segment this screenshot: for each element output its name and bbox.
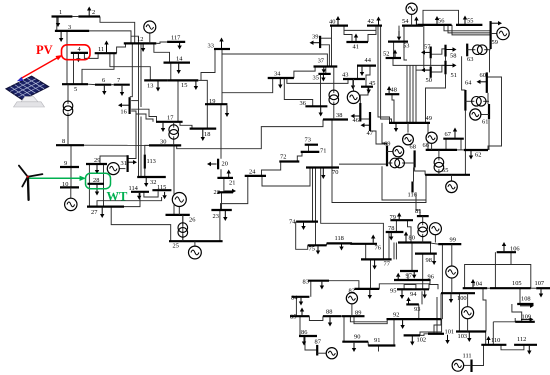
- load arrow bus 48: [388, 90, 390, 93]
- svg-text:71: 71: [320, 148, 326, 155]
- load arrow bus 11: [106, 45, 108, 53]
- svg-text:64: 64: [465, 80, 472, 87]
- svg-text:47: 47: [367, 130, 374, 137]
- wire 17-18: [180, 122, 192, 129]
- bus 47 (vertical): [369, 112, 371, 131]
- svg-text:96: 96: [428, 274, 434, 281]
- wire 74-75: [296, 222, 308, 250]
- svg-text:44: 44: [365, 57, 372, 64]
- wire 92-100: [441, 244, 443, 319]
- wire 55-59a: [444, 25, 491, 31]
- wire 22-23: [221, 192, 223, 210]
- load arrow bus 50: [425, 69, 430, 71]
- transformer T59-63: [467, 49, 475, 51]
- bus 27: [87, 206, 124, 208]
- bus 5: [62, 83, 88, 85]
- wire 30-38: [177, 120, 323, 149]
- load arrow bus 93u: [408, 301, 410, 304]
- bus 87 (vertical): [316, 345, 318, 356]
- load arrow bus 96u: [397, 277, 399, 280]
- wire 28-29b: [103, 164, 105, 184]
- load arrow bus 36: [320, 107, 322, 112]
- wire 115-27: [97, 197, 162, 207]
- wire 83-84: [310, 281, 312, 297]
- bus 100: [441, 292, 475, 294]
- load arrow bus 57: [425, 51, 430, 53]
- load arrow bus 108: [520, 305, 530, 307]
- wire 18-19: [206, 104, 208, 128]
- wire 11-13: [110, 53, 150, 80]
- wire 62-67: [460, 139, 462, 150]
- generator G25: [194, 241, 196, 246]
- wire 23-25: [219, 210, 221, 241]
- bus 60 (vertical): [486, 72, 488, 93]
- wire 80-97: [411, 243, 413, 272]
- svg-text:61: 61: [482, 119, 488, 126]
- bus 62: [464, 149, 488, 151]
- svg-text:WT: WT: [107, 190, 129, 204]
- wire 42-49a: [378, 26, 390, 123]
- bus 51 (vertical): [444, 61, 446, 75]
- svg-text:83: 83: [303, 279, 309, 286]
- load arrow bus 49: [395, 124, 397, 128]
- wire 105-110: [514, 318, 516, 322]
- wire 68-116: [413, 167, 415, 181]
- bus 7: [114, 84, 130, 86]
- bus 97: [400, 270, 418, 272]
- svg-text:51: 51: [451, 72, 457, 79]
- svg-text:5: 5: [74, 86, 77, 93]
- generator G31: [119, 168, 125, 170]
- load arrow bus 76: [372, 239, 374, 243]
- load arrow bus 110: [488, 340, 490, 344]
- svg-text:69: 69: [384, 141, 390, 148]
- svg-text:45: 45: [369, 80, 375, 87]
- svg-text:113: 113: [147, 158, 156, 165]
- bus 69 (vertical): [386, 146, 388, 166]
- wire 15-33: [201, 49, 215, 80]
- svg-text:107: 107: [535, 280, 545, 287]
- wire 33-37: [222, 49, 327, 67]
- bus 16 (vertical): [129, 97, 131, 114]
- bus 117: [167, 41, 185, 43]
- svg-text:76: 76: [375, 245, 381, 252]
- svg-text:94: 94: [410, 291, 417, 298]
- wire 47-69: [370, 131, 387, 146]
- bus 109: [515, 321, 535, 323]
- svg-text:75: 75: [309, 246, 315, 253]
- bus 8: [56, 144, 84, 146]
- svg-text:95: 95: [390, 288, 396, 295]
- wire 93-92: [418, 304, 420, 319]
- PV panel icon: [6, 76, 48, 107]
- bus 49: [389, 122, 430, 124]
- wire 77-80a: [393, 243, 395, 260]
- svg-text:73: 73: [305, 137, 311, 144]
- svg-text:112: 112: [517, 336, 526, 343]
- wire 75-118: [326, 243, 328, 245]
- wire 39-40: [320, 37, 331, 39]
- bus 24: [245, 175, 266, 177]
- wire 69d: [386, 164, 388, 166]
- load arrow bus 1: [57, 18, 59, 24]
- generator G89: [351, 304, 353, 316]
- wire 70-74: [312, 168, 314, 222]
- wire L-vert-a: [128, 111, 136, 159]
- load arrow bus 16: [122, 104, 129, 106]
- load arrow bus 109: [521, 318, 530, 320]
- bus 54: [402, 25, 423, 27]
- bus 55: [456, 24, 482, 26]
- load arrow bus 27: [101, 208, 103, 214]
- wire 27-28b: [103, 184, 105, 207]
- PV pointer arrow (red): [20, 57, 60, 80]
- bus 57 (vertical): [430, 47, 432, 59]
- svg-text:41: 41: [353, 44, 359, 51]
- svg-text:24: 24: [249, 169, 256, 176]
- generator G54: [411, 14, 413, 25]
- load arrow bus 45: [368, 88, 370, 90]
- svg-text:66: 66: [423, 142, 429, 149]
- wind turbine icon: [19, 166, 43, 200]
- svg-text:118: 118: [335, 235, 344, 242]
- wire 101-102: [420, 334, 428, 336]
- bus 34: [268, 77, 294, 79]
- svg-text:32: 32: [150, 179, 156, 186]
- svg-text:98: 98: [426, 257, 432, 264]
- bus 118: [327, 242, 352, 244]
- wire 46-47: [360, 118, 370, 120]
- bus 96: [394, 279, 431, 281]
- generator G26: [178, 207, 180, 215]
- wire 57-50: [430, 58, 432, 66]
- svg-text:99: 99: [450, 237, 456, 244]
- bus 25: [169, 240, 223, 242]
- wire 21-22: [223, 178, 225, 192]
- wire 40-42a: [344, 26, 376, 31]
- svg-text:52: 52: [383, 51, 389, 58]
- bus 48: [385, 93, 399, 95]
- load arrow bus 41: [355, 38, 357, 42]
- wire 43-44: [357, 66, 359, 79]
- load arrow bus 39: [314, 42, 320, 44]
- svg-text:16: 16: [120, 109, 126, 116]
- svg-text:106: 106: [510, 246, 520, 253]
- wire 95-96a: [404, 285, 416, 290]
- wire 77-78: [388, 232, 390, 259]
- wire 69-70: [339, 163, 387, 165]
- bus 12: [124, 42, 157, 44]
- bus 75: [308, 244, 327, 246]
- bus 116 (vertical): [411, 182, 413, 193]
- wire 66-67: [445, 139, 447, 150]
- wire 109-110h: [493, 321, 515, 323]
- svg-text:86: 86: [301, 329, 307, 336]
- wire 85-86: [299, 316, 301, 336]
- wire 49top-h2: [416, 69, 430, 71]
- wire 3-12: [89, 31, 131, 44]
- wire 51-49: [426, 74, 446, 123]
- bus 37: [314, 65, 338, 67]
- svg-text:PV: PV: [36, 43, 53, 57]
- wire 70-77: [321, 168, 384, 260]
- generator G59: [491, 33, 497, 35]
- load arrow bus 34: [279, 79, 281, 85]
- wire 44-45: [366, 66, 370, 87]
- svg-text:21: 21: [229, 180, 235, 187]
- svg-text:34: 34: [274, 71, 281, 78]
- bus 72: [279, 160, 299, 162]
- svg-text:114: 114: [129, 185, 139, 192]
- wire 2-12: [100, 17, 135, 44]
- load arrow bus 84: [300, 298, 302, 302]
- bus 95: [397, 288, 412, 290]
- transformer T65-66: [438, 150, 440, 161]
- bus 88: [323, 315, 342, 317]
- svg-text:68: 68: [410, 144, 416, 151]
- wire 12-16: [130, 43, 133, 96]
- load arrow bus 29: [96, 165, 98, 170]
- svg-text:117: 117: [171, 35, 181, 42]
- svg-text:74: 74: [289, 219, 296, 226]
- wire 37-40: [331, 26, 333, 67]
- bus 11: [95, 52, 117, 54]
- wire 94-92: [421, 291, 423, 304]
- bus 110: [481, 344, 506, 346]
- wire 113-32: [144, 169, 146, 177]
- wire 12-117: [156, 42, 167, 43]
- wire 86-87: [305, 336, 317, 350]
- bus 52: [386, 57, 401, 59]
- load arrow bus 51: [447, 64, 453, 66]
- svg-text:109: 109: [522, 314, 532, 321]
- wire 50-51: [431, 65, 446, 72]
- svg-text:6: 6: [102, 77, 105, 84]
- svg-text:101: 101: [445, 329, 455, 336]
- bus 101: [428, 333, 444, 335]
- transformer T68-69: [387, 162, 392, 164]
- load arrow bus 55: [464, 20, 466, 24]
- svg-text:56: 56: [438, 18, 444, 25]
- svg-text:27: 27: [91, 209, 98, 216]
- generator G66: [431, 143, 433, 150]
- load arrow bus 85: [301, 312, 303, 316]
- svg-text:87: 87: [315, 339, 322, 346]
- generator G69: [387, 151, 393, 153]
- load arrow bus 15: [195, 81, 197, 86]
- wire 77-82: [370, 259, 372, 289]
- bus 20 (vertical): [217, 159, 219, 170]
- bus 19: [205, 103, 227, 105]
- generator G111: [464, 364, 472, 366]
- wire 106-105r: [510, 252, 512, 264]
- load arrow bus 32: [145, 178, 147, 183]
- bus 44: [357, 64, 376, 66]
- svg-text:29: 29: [94, 157, 100, 164]
- load arrow bus 70: [322, 169, 324, 176]
- bus 45: [361, 86, 373, 88]
- wire 64-65: [464, 111, 466, 175]
- wire 62-66: [457, 149, 464, 151]
- wire 90-91: [367, 342, 369, 346]
- wire 33-19v: [221, 93, 223, 105]
- svg-text:100: 100: [457, 295, 467, 302]
- wire 94-96: [429, 285, 438, 290]
- svg-text:59: 59: [492, 39, 498, 46]
- wire 100-103: [458, 293, 460, 331]
- bus 61 (vertical): [488, 104, 490, 119]
- svg-text:38: 38: [336, 112, 342, 119]
- load arrow bus 95: [401, 290, 403, 295]
- wire 25-26: [182, 215, 184, 241]
- wire 15-19: [198, 80, 207, 104]
- wire 76-77: [365, 244, 367, 260]
- bus 73: [305, 144, 318, 146]
- bus 85: [290, 315, 309, 317]
- bus 46 (vertical): [359, 103, 361, 122]
- wire 1-2: [72, 16, 78, 18]
- wire 49-50b: [409, 65, 411, 123]
- bus 29: [86, 163, 107, 165]
- load arrow bus 35: [322, 75, 324, 78]
- wire 109-110: [492, 322, 494, 345]
- bus 30: [149, 144, 181, 146]
- svg-text:36: 36: [300, 100, 306, 107]
- svg-text:33: 33: [208, 43, 214, 50]
- load arrow bus 117: [179, 43, 181, 46]
- bus 103: [456, 330, 486, 332]
- bus 35: [318, 73, 330, 75]
- svg-text:54: 54: [402, 18, 409, 25]
- load arrow bus 74: [303, 223, 305, 226]
- wire 84-85: [295, 297, 297, 316]
- wire 55-59b: [448, 25, 491, 33]
- bus 68 (vertical): [414, 150, 416, 167]
- svg-text:30: 30: [160, 139, 166, 146]
- bus 98: [415, 253, 437, 255]
- bus 94: [412, 288, 429, 290]
- bus 65: [425, 174, 470, 176]
- load arrow bus 52: [394, 54, 396, 58]
- wire 63-64: [462, 56, 466, 90]
- load arrow bus 44: [361, 67, 363, 72]
- wire 108-109: [512, 304, 522, 322]
- svg-text:17: 17: [167, 115, 174, 122]
- svg-text:70: 70: [332, 169, 338, 176]
- generator G87: [317, 352, 326, 354]
- transformer T5-8: [67, 84, 69, 104]
- load arrow bus 53: [398, 31, 400, 37]
- bus 115: [152, 189, 171, 191]
- WT highlight box (green) around bus 28: [86, 173, 111, 189]
- bus 4: [71, 52, 88, 54]
- svg-text:89: 89: [355, 310, 361, 317]
- svg-text:88: 88: [326, 309, 332, 316]
- svg-text:62: 62: [475, 152, 481, 159]
- WT pointer arrow (green): [29, 177, 81, 179]
- load arrow bus 18: [202, 130, 204, 137]
- svg-text:77: 77: [384, 261, 391, 268]
- svg-text:25: 25: [173, 243, 179, 250]
- wire L-vert-b: [131, 36, 139, 177]
- wire 17-31: [140, 117, 142, 178]
- wire 77-80b: [395, 243, 397, 260]
- bus 113 (vertical): [144, 155, 146, 169]
- svg-text:92: 92: [393, 312, 399, 319]
- load arrow bus 7: [121, 86, 123, 92]
- wire 56-57-50: [423, 25, 425, 70]
- load arrow bus 6: [103, 86, 105, 91]
- wire 30-113: [145, 145, 149, 154]
- svg-text:84: 84: [291, 295, 298, 302]
- svg-text:11: 11: [98, 46, 104, 53]
- generator G10: [70, 187, 72, 198]
- bus 66: [426, 149, 457, 151]
- svg-text:91: 91: [374, 337, 380, 344]
- svg-text:78: 78: [388, 225, 394, 232]
- wire 15-17: [177, 80, 179, 121]
- wire 106-105l: [494, 252, 496, 288]
- wire 11-12: [117, 43, 126, 53]
- load arrow bus 102: [411, 336, 413, 341]
- wire 19-34: [222, 54, 273, 93]
- svg-text:72: 72: [280, 154, 286, 161]
- svg-text:20: 20: [222, 161, 228, 168]
- wire 103-110: [485, 332, 487, 345]
- load arrow bus 86: [303, 337, 305, 342]
- wire L-vert-c: [140, 43, 142, 107]
- svg-text:18: 18: [204, 131, 210, 138]
- wire 118-76: [350, 242, 352, 244]
- bus 22: [217, 191, 233, 193]
- load arrow bus 47: [365, 124, 370, 126]
- svg-text:58: 58: [450, 53, 456, 60]
- load arrow bus 82: [369, 290, 371, 295]
- wire 41-42: [368, 30, 376, 42]
- wire 49-51b: [415, 65, 417, 123]
- wire 69-65b: [382, 166, 426, 200]
- load arrow bus 59: [492, 22, 499, 24]
- bus 21: [217, 177, 233, 179]
- bus 56: [417, 24, 451, 26]
- svg-text:49: 49: [426, 115, 432, 122]
- load arrow bus 62: [470, 151, 472, 156]
- wire 89-90: [343, 316, 345, 342]
- wire 45-46: [360, 87, 368, 103]
- load arrow bus 77: [374, 260, 376, 265]
- bus 28: [88, 183, 105, 185]
- wire 82-95: [379, 280, 430, 289]
- wire 24-70: [262, 168, 310, 187]
- wire 92-102: [420, 319, 442, 335]
- generator G100b: [467, 293, 469, 307]
- wire 5-6: [88, 83, 95, 85]
- load arrow bus 60: [481, 81, 487, 83]
- bus 67: [443, 138, 464, 140]
- load arrow bus 3: [60, 32, 62, 38]
- load arrow bus 2: [88, 11, 90, 16]
- svg-text:103: 103: [458, 333, 468, 340]
- wire 48-49: [392, 94, 394, 123]
- bus 78: [386, 231, 404, 233]
- load arrow bus 78: [390, 233, 392, 237]
- bus 13: [144, 79, 167, 81]
- bus 91: [368, 344, 395, 346]
- wire 54-49a: [404, 26, 407, 60]
- bus 114: [131, 191, 149, 193]
- wire 49-51a: [412, 65, 414, 123]
- load arrow bus 21: [228, 174, 230, 178]
